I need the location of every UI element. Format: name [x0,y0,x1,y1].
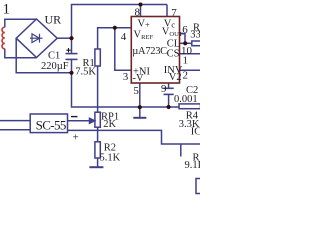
junction dot VOUT-CL [183,41,187,45]
wire pin 6 VOUT stub [180,34,186,44]
wire pin 5 stub down to ground rail [139,83,141,107]
wire node B down to ground rail [72,73,180,107]
wire node A up and across to IC pins 8,7 [72,5,168,39]
wire pin 8 stub [140,5,142,17]
junction dot node B [69,71,73,75]
wire R1 bottom to RP1 top [97,66,99,112]
wire RP1 bottom to R2 top [97,127,99,142]
svg-text:9.1K: 9.1K [185,160,201,171]
svg-text:5.1K: 5.1K [100,152,121,163]
resistor R5 body at edge [196,179,204,194]
wire SC-55 plus output long run [68,130,201,144]
svg-text:UR: UR [45,13,62,27]
resistor R2 body [95,142,100,158]
resistor R1 body [95,49,100,66]
wire node C down to pin 3 [115,28,132,70]
ground bar below R2 [89,166,103,168]
svg-text:5: 5 [133,85,139,97]
svg-text:330: 330 [190,30,200,41]
capacitor C1 plates [66,54,78,60]
C1 plus sign [66,48,70,52]
junction dot node A [69,36,73,40]
minus sign SC-55 output [71,116,78,118]
capacitor C2 plates [164,88,174,94]
ground bar at rail [133,117,146,119]
wire bridge left corner down to bottom rail [16,38,71,73]
junction dots [69,3,187,110]
resistor R4 body [179,104,201,109]
RP1 wiper arrow [68,118,95,123]
wire coil bottom to bridge bottom corner [5,49,37,58]
wire pin 9 stub to C2 [168,83,170,88]
svg-text:220µF: 220µF [41,61,69,72]
junction dot node C pin4 [113,26,117,30]
wire stub bottom right [180,144,182,157]
junction dot ground rail pin5 [138,105,142,109]
svg-text:-V: -V [133,73,144,84]
wire coil top to bridge top corner [5,19,37,27]
wire C1 bottom to node B [71,59,73,72]
junction dot ground rail C2 [167,105,171,109]
wire pin 1 CS to edge [180,53,201,55]
wire pin 2 INV to edge [180,69,201,71]
wire node A down to C1 [71,38,73,53]
wire ground stub below rail [139,107,141,117]
wire R2 bottom to ground [97,158,99,167]
wire SC-55 left input top [0,120,30,122]
svg-text:2: 2 [183,69,189,81]
svg-text:9: 9 [161,83,167,95]
svg-text:1: 1 [3,2,11,18]
wire pin 7 stub [166,5,168,17]
svg-text:µA723C: µA723C [132,46,167,57]
svg-text:V+: V+ [138,19,151,30]
svg-text:V2: V2 [169,72,182,83]
wire bridge right corner to node A [57,37,71,39]
box SC-55 [30,114,67,133]
svg-text:6: 6 [182,24,188,36]
wire pin 10 CL to R3 [180,42,192,44]
svg-text:4: 4 [121,31,127,43]
svg-text:3: 3 [123,71,129,83]
svg-text:7.5K: 7.5K [75,67,96,78]
svg-text:1: 1 [183,54,189,66]
junction dot pin8 rail [139,3,143,7]
svg-text:0.001: 0.001 [174,94,198,105]
potentiometer RP1 body [95,112,100,127]
inductor winding L1 [2,27,5,49]
svg-text:+: + [73,131,79,143]
bridge rectifier UR diamond [16,19,57,58]
svg-text:8: 8 [135,7,141,19]
svg-text:IC: IC [191,126,200,137]
wire R1 top to pin 4 [98,28,131,49]
svg-text:SC-55: SC-55 [36,117,66,132]
svg-text:CS: CS [167,49,180,60]
svg-text:7: 7 [171,7,177,19]
wire C2 bottom to ground rail [168,94,170,107]
diode inside bridge [30,34,43,43]
resistor R3 body [192,41,201,46]
svg-text:C1: C1 [48,50,60,61]
svg-text:2K: 2K [103,119,116,130]
wire SC-55 left input bottom [0,129,30,131]
IC U1 uA723C box [131,17,179,84]
